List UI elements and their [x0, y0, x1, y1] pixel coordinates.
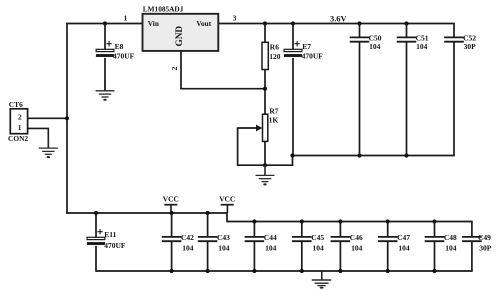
ground below E8 — [96, 80, 115, 101]
wire R7 wiper loop — [238, 127, 293, 165]
junction dot C46 top — [338, 219, 342, 223]
junction dot C46 bottom — [338, 269, 342, 273]
wire ground bottom rail — [96, 270, 473, 272]
svg-text:1: 1 — [124, 14, 128, 23]
svg-text:Vout: Vout — [196, 19, 211, 28]
svg-text:470UF: 470UF — [113, 51, 135, 60]
svg-text:30P: 30P — [464, 42, 477, 51]
capacitor E7 470UF — [284, 24, 323, 156]
junction dot E11 top — [94, 211, 98, 215]
svg-text:104: 104 — [313, 244, 325, 253]
svg-text:104: 104 — [351, 244, 363, 253]
svg-text:C46: C46 — [350, 233, 363, 242]
capacitor C46 104 — [331, 222, 363, 272]
svg-text:104: 104 — [369, 42, 381, 51]
svg-text:30P: 30P — [479, 244, 492, 253]
junction dot C48 top — [432, 219, 436, 223]
capacitor C52 30P — [444, 24, 476, 156]
svg-text:C42: C42 — [181, 233, 194, 242]
capacitor C42 104 — [162, 213, 194, 271]
wire pin 2 ADJ to R6/R7 node — [181, 51, 265, 89]
connector CT6 CON2 — [8, 100, 28, 143]
svg-text:C49: C49 — [478, 233, 491, 242]
svg-text:E11: E11 — [104, 230, 116, 239]
junction dot C47 bottom — [386, 269, 390, 273]
svg-text:VCC: VCC — [219, 194, 235, 203]
svg-text:104: 104 — [445, 244, 457, 253]
junction dot C43 bottom — [206, 269, 210, 273]
svg-text:120: 120 — [269, 52, 281, 61]
svg-text:GND: GND — [175, 26, 185, 47]
junction dot ADJ node — [263, 87, 267, 91]
junction dot R7 bottom — [263, 163, 267, 167]
capacitor C49 30P — [462, 222, 492, 272]
wire output net bottom rail — [293, 155, 455, 157]
junction dot C44 top — [252, 219, 256, 223]
capacitor E8 470UF — [96, 24, 135, 91]
junction dot C50 top — [357, 21, 361, 25]
resistor R6 120 — [262, 24, 281, 89]
ground below R7 — [256, 165, 275, 186]
junction dot C44 bottom — [252, 269, 256, 273]
svg-text:Vin: Vin — [148, 19, 159, 28]
junction dot C42 bottom — [170, 269, 174, 273]
junction dot C45 top — [300, 219, 304, 223]
junction dot C45 bottom — [300, 269, 304, 273]
wire input net left vertical — [66, 23, 68, 214]
junction dot E7 top — [291, 21, 295, 25]
power VCC symbol 2 — [219, 194, 235, 213]
junction dot C43 top — [206, 211, 210, 215]
junction dot C51 top — [404, 21, 408, 25]
svg-text:104: 104 — [398, 244, 410, 253]
svg-text:104: 104 — [182, 244, 194, 253]
potentiometer R7 1K — [238, 89, 279, 166]
svg-text:2: 2 — [18, 113, 22, 122]
wire VCC rail — [66, 213, 473, 222]
svg-text:3.6V: 3.6V — [330, 15, 347, 24]
wire input net: top rail to Vin pin 1 — [66, 23, 142, 25]
junction dot E7 bottom — [290, 153, 294, 157]
svg-text:C43: C43 — [217, 233, 230, 242]
svg-text:CT6: CT6 — [9, 100, 23, 109]
svg-text:104: 104 — [265, 244, 277, 253]
wire CT6 pin 1 to ground — [28, 128, 49, 148]
svg-text:470UF: 470UF — [104, 241, 126, 250]
svg-text:E7: E7 — [302, 42, 311, 51]
capacitor C44 104 — [245, 222, 277, 272]
svg-text:CON2: CON2 — [8, 134, 28, 143]
regulator U1 LM1085ADJ — [143, 5, 219, 51]
junction dot C47 top — [386, 219, 390, 223]
junction dot C42 top — [170, 211, 174, 215]
wire output rail pin 3 (3.6V net) — [218, 23, 454, 25]
svg-text:C45: C45 — [311, 233, 324, 242]
capacitor C48 104 — [425, 222, 457, 272]
ground bottom center — [312, 271, 331, 289]
junction dot C48 bottom — [432, 269, 436, 273]
capacitor C45 104 — [292, 222, 324, 272]
svg-text:1K: 1K — [269, 115, 279, 124]
svg-text:C47: C47 — [397, 233, 410, 242]
junction dot R6 top — [263, 21, 267, 25]
junction dot E8 top — [103, 21, 107, 25]
junction dot CT6 pin 2 — [65, 116, 69, 120]
capacitor C43 104 — [198, 213, 230, 271]
svg-text:1: 1 — [18, 123, 22, 132]
svg-text:LM1085ADJ: LM1085ADJ — [143, 5, 184, 14]
junction dot C51 bottom — [404, 153, 408, 157]
wire CT6 pin 2 to input net — [28, 117, 67, 119]
svg-text:2: 2 — [170, 66, 179, 70]
svg-text:C48: C48 — [444, 233, 457, 242]
capacitor E11 470UF — [87, 213, 126, 272]
ground below CT6 pin 1 — [39, 138, 58, 159]
svg-text:C44: C44 — [264, 233, 277, 242]
power VCC symbol 1 — [163, 194, 179, 213]
svg-text:E8: E8 — [115, 42, 124, 51]
svg-text:470UF: 470UF — [302, 51, 324, 60]
svg-text:R6: R6 — [270, 42, 279, 51]
capacitor C50 104 — [350, 24, 382, 156]
svg-text:VCC: VCC — [163, 194, 179, 203]
capacitor C47 104 — [378, 222, 410, 272]
junction dot C50 bottom — [357, 153, 361, 157]
svg-text:104: 104 — [218, 244, 230, 253]
svg-text:104: 104 — [416, 42, 428, 51]
capacitor C51 104 — [397, 24, 429, 156]
svg-text:3: 3 — [233, 13, 237, 22]
